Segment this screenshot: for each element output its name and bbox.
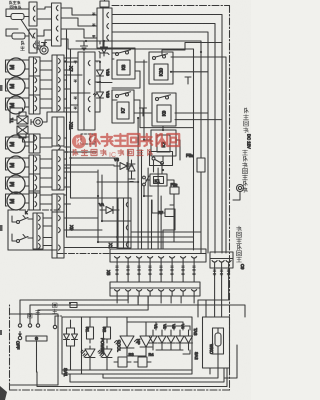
diode pair b [72, 328, 78, 346]
relay K8 block [112, 48, 135, 79]
wire to terminal [233, 196, 240, 200]
wire label [116, 266, 119, 268]
wire color mark b [74, 107, 77, 109]
label mid [36, 310, 41, 315]
junction verticals [97, 170, 99, 242]
X7 pin [59, 136, 61, 141]
X5 drop [160, 296, 162, 303]
wire M4 loop [6, 137, 30, 149]
wire M7 loop [6, 194, 30, 206]
compressor box [8, 210, 57, 250]
cap C near K9 [140, 108, 147, 116]
return circle [53, 325, 56, 328]
resistor R7 [165, 209, 175, 217]
nest wire 3 [37, 368, 227, 387]
connector X5 strip [110, 282, 200, 296]
X1-X5 link [171, 262, 173, 282]
connector X2b strip [78, 52, 95, 130]
connector X6 lower [29, 29, 37, 53]
label weak [28, 314, 33, 319]
wire M5 loop [6, 158, 30, 170]
return label [53, 303, 58, 308]
right text 1 [245, 108, 249, 113]
h wire gap3 [64, 61, 78, 63]
wires X9 out [43, 218, 52, 246]
switch S2 [17, 235, 29, 243]
connector X9b [52, 212, 64, 258]
terminal circle right [237, 185, 244, 197]
wire plug-X7 b [40, 107, 52, 109]
small comp on bus [70, 303, 77, 308]
wire M3 loop [6, 98, 30, 110]
wire M5 out [25, 166, 29, 168]
wire X7 out a [64, 79, 67, 81]
h wire m6 [64, 151, 97, 153]
switch diagonal wire [21, 20, 33, 39]
wire TL loop1 [6, 9, 29, 17]
X5 pin [137, 290, 142, 292]
wire label [182, 266, 185, 268]
X5 drop [170, 296, 172, 303]
nest wire 4 [224, 345, 237, 378]
label corner1 [10, 1, 12, 4]
fuse FB1 [197, 158, 205, 172]
wire M2 loop [6, 79, 30, 91]
paper noise [0, 0, 1, 1]
wire plug-X7 a [40, 60, 52, 62]
wire X6-X8 b [37, 18, 52, 20]
connector M2 plug [29, 76, 40, 95]
wire bus B [112, 24, 215, 254]
wire label [138, 266, 141, 268]
wire plug-X7 b [40, 69, 52, 71]
wire M2 out [25, 87, 29, 89]
X4 pin [219, 261, 224, 263]
wire X8-X2 c [61, 29, 97, 38]
connector X3 strip [118, 198, 131, 248]
wire M6 out [25, 185, 29, 187]
bus wire v138.1 [137, 118, 139, 249]
led HP [115, 330, 142, 356]
wire color mark [93, 13, 96, 15]
connector M6 plug [29, 174, 40, 193]
connector X8 [52, 3, 62, 46]
X1 pin [159, 257, 164, 259]
selector bar [26, 336, 47, 341]
connector X9u strip [52, 150, 64, 190]
h wire gap6 [64, 111, 78, 113]
X5 pin [159, 290, 164, 292]
wire label [127, 266, 130, 268]
transformer T1 [17, 112, 28, 138]
led POWER [81, 346, 95, 360]
connector X12 strip [52, 194, 64, 212]
wire FB2 drop [163, 194, 175, 249]
X1 pin [170, 257, 175, 259]
nest wire 1 [103, 368, 218, 378]
junction dots [97, 195, 99, 197]
wire bus D cont [200, 172, 202, 253]
right text 3 [237, 226, 242, 231]
relay contact box TL2 [12, 33, 25, 39]
wire misc mid [97, 62, 112, 83]
boundary dash-dot top [112, 5, 230, 7]
X5 pin [148, 290, 153, 292]
wire plug-X7 b [40, 186, 52, 188]
X1-X5 link [127, 262, 129, 282]
panel bottom wires [62, 350, 192, 370]
boundary dash-dot left indoor [9, 305, 11, 390]
diode SA2 [185, 330, 200, 360]
bus wire v141.5 [141, 150, 143, 249]
X5 drop [180, 296, 182, 303]
bottom bus 2 [30, 305, 245, 325]
wire X7 out b [64, 69, 71, 71]
wire X7 out b [64, 186, 71, 188]
wire plug-X7 b [40, 167, 52, 169]
cap T right [185, 76, 191, 78]
h wire m10 [131, 231, 201, 233]
boundary dash-dot right [229, 6, 231, 391]
wire X7 out b [64, 203, 71, 205]
wire X8-X2 b [61, 18, 97, 26]
connector M4 plug [29, 134, 40, 153]
watermark text line2 [73, 150, 152, 160]
switch block box [10, 314, 59, 385]
box bottom wires [210, 354, 218, 374]
wire X7 out b [64, 146, 71, 148]
h wire gap1 [64, 57, 78, 59]
wire label [149, 266, 152, 268]
h wire gap2 [71, 92, 91, 94]
connector X9a [33, 213, 43, 249]
fuse FB2 [170, 187, 179, 194]
relay K1 [150, 174, 167, 186]
selector stem [36, 341, 38, 372]
X2 pin [107, 13, 109, 18]
wire X7 out b [64, 88, 71, 90]
X5 pin [115, 290, 120, 292]
fan sensor [31, 118, 43, 127]
wire X6-X8 a [37, 7, 52, 9]
boundary dash-dot bottom [10, 389, 230, 391]
wire color mark b [74, 80, 77, 82]
wire plug-X7 a [40, 194, 52, 196]
motor M4 [7, 135, 25, 153]
X5 pin [126, 290, 131, 292]
wire color mark [93, 24, 96, 26]
return dashdot [55, 315, 62, 317]
panel wires a [67, 320, 75, 370]
X1-X5 link [160, 262, 162, 282]
compressor box dash-dot top [8, 209, 60, 211]
X1 pin [126, 257, 131, 259]
X5 pin [192, 290, 197, 292]
contact K2 [152, 157, 164, 170]
X4 pin [212, 261, 217, 263]
h wire m5 [98, 241, 194, 243]
bus wire v161.1 [160, 196, 162, 249]
connector M7 plug [29, 191, 40, 210]
wire K8-K10 [112, 62, 147, 88]
X2b pin [88, 80, 90, 85]
motor M6 [7, 175, 25, 193]
wire TL2-conn [25, 35, 29, 37]
wire M1 loop [6, 60, 30, 72]
wire plug-X7 a [40, 137, 52, 139]
pressure sensor [40, 43, 48, 55]
scan artifact left 3 [0, 330, 2, 335]
sa1 wire [36, 371, 39, 373]
X4 drop join [198, 300, 229, 317]
wire X8-X2 a [61, 8, 97, 15]
wire X7 out a [64, 98, 67, 100]
X1 pin [181, 257, 186, 259]
wire bus E [68, 49, 194, 250]
wire TL loop2 [6, 29, 18, 36]
wire color mark b [74, 61, 77, 63]
X5 pin [181, 290, 186, 292]
X1-X5 link [116, 262, 118, 282]
zener VZ [99, 41, 109, 56]
label tl2 [36, 41, 40, 45]
X4 label [220, 270, 223, 272]
relay K9 block [152, 93, 176, 126]
wire M7 out [25, 202, 29, 204]
wire M1 out [25, 68, 29, 70]
wire plug-X7 a [40, 158, 52, 160]
X4 drop [228, 268, 230, 300]
wire M4 out [25, 145, 29, 147]
motor M7 [7, 192, 25, 210]
h wire m3 [102, 220, 131, 222]
wire X7 out a [64, 137, 67, 139]
diode pair a [64, 328, 70, 346]
wire K7 row [112, 100, 194, 128]
wire X7 out b [64, 167, 71, 169]
bus wire v128.1 [127, 150, 129, 249]
X5 pin [170, 290, 175, 292]
diode V3 [167, 324, 176, 350]
wire K10 right [162, 43, 222, 72]
scan artifact left 2 [0, 225, 3, 231]
display panel box [62, 317, 192, 374]
bus wire v117.1 [116, 160, 118, 249]
relay K10 block [149, 52, 173, 84]
X5 drop [137, 296, 139, 303]
X7 pin [59, 157, 61, 162]
bus wire v151.5 [151, 200, 153, 249]
wire sw1 [12, 216, 33, 222]
resistor R3 [114, 352, 134, 367]
diode V19 [97, 89, 104, 101]
motor M3 [7, 96, 25, 114]
X2 pin [107, 24, 109, 29]
watermark text line1 [90, 134, 179, 146]
X1 pin [148, 257, 153, 259]
wire plug-X7 b [40, 203, 52, 205]
OFF circle [18, 336, 21, 339]
wire bus A [112, 15, 222, 254]
connector X6 upper [29, 2, 37, 26]
X7 pin [59, 78, 61, 83]
wire bus C [112, 32, 208, 253]
inner board [213, 328, 224, 354]
wire color mark [93, 36, 96, 38]
wire K2 feeds [144, 60, 180, 174]
wire X7 out a [64, 60, 67, 62]
panel h wires [127, 322, 190, 326]
wire K9 right [175, 113, 222, 120]
control box [203, 317, 230, 368]
wire bus F [171, 57, 226, 253]
X4 drop [221, 268, 223, 300]
pos circles [18, 324, 21, 327]
wire fan-X7 [43, 112, 53, 122]
h wire m1 [71, 197, 119, 199]
crystal [215, 333, 221, 346]
X5 drop [193, 296, 195, 303]
cap bar [128, 178, 135, 180]
X1-X5 link [182, 262, 184, 282]
bus wire v148.1 [147, 168, 149, 249]
connector M3 plug [29, 95, 40, 114]
led COOL [98, 346, 112, 360]
nest wire 2 [70, 368, 224, 382]
h wire gap5 [71, 104, 79, 106]
diode VA [99, 202, 119, 214]
connector X11 strip [52, 117, 64, 146]
ground [81, 41, 88, 50]
X2b pin [88, 97, 90, 102]
wire M6 loop [6, 177, 30, 189]
motor M5 [7, 156, 25, 174]
wire V18 [95, 41, 100, 112]
wire color mark b [74, 97, 77, 99]
right text 2 [243, 150, 248, 155]
wire plug-X7 b [40, 88, 52, 90]
X4 pin [226, 261, 231, 263]
panel divider [81, 317, 83, 374]
wire K1 feeds [144, 180, 174, 213]
wire X7 out a [64, 177, 67, 179]
X5 drop [116, 296, 118, 303]
resistor R1 [87, 323, 94, 343]
relay K2 block [151, 130, 176, 156]
connector X7 strip [52, 55, 64, 112]
X12 pins [59, 196, 61, 201]
panel top wires [90, 317, 190, 330]
connector X1 strip [110, 249, 206, 262]
diode V9 up [128, 160, 135, 176]
h wire m9 [64, 171, 97, 173]
X7 pin [59, 176, 61, 181]
X2b pin [88, 107, 90, 112]
diode V4 [176, 324, 185, 350]
wires X9b out [64, 218, 118, 248]
X5 drop [147, 296, 149, 303]
wire plug-X7 a [40, 79, 52, 81]
motor M1 [7, 58, 25, 76]
scan artifact corner [0, 386, 7, 400]
wire X7 out b [64, 107, 71, 109]
h wire m7 [71, 157, 119, 159]
wire label [193, 266, 196, 268]
wire plug-X7 a [40, 177, 52, 179]
h wire m8 [64, 164, 114, 166]
bottom bus 1 [20, 296, 128, 325]
resistor R2 [104, 323, 111, 343]
scan artifact left 1 [0, 85, 3, 91]
wire plug-X7 a [40, 98, 52, 100]
X1 pin [115, 257, 120, 259]
X1-X5 link [149, 262, 151, 282]
wire relay rows [112, 53, 117, 59]
diode V1 [149, 324, 158, 350]
wire M3 out [25, 106, 29, 108]
h wire gap4 [64, 74, 82, 76]
connector M5 plug [29, 155, 40, 174]
connector X2 strip [97, 8, 112, 48]
OFF arrow [19, 332, 21, 336]
wire X7 out a [64, 158, 67, 160]
bottom bus 3 [38, 296, 148, 325]
X2 top tag [100, 1, 109, 7]
switch S1 [17, 210, 29, 224]
contact K1 [143, 176, 149, 186]
X5 drop [127, 296, 129, 303]
motor M2 [7, 77, 25, 95]
bus v2 [70, 49, 72, 198]
X4 drop [214, 268, 216, 300]
label tl1 [21, 41, 24, 45]
X4 label [227, 270, 230, 272]
bus2 pin stub [137, 296, 139, 305]
wire bus D [76, 41, 201, 158]
diode V2 [158, 324, 167, 350]
indoor boundary dashdot mid [57, 253, 110, 255]
contact K2 outline [150, 152, 173, 166]
X7 pin [59, 59, 61, 64]
diode V18 [97, 67, 104, 79]
X4 label [213, 270, 216, 272]
connector X4 strip [210, 252, 233, 268]
led 4 [135, 330, 153, 356]
resistor R4 [134, 352, 154, 367]
watermark logo circle [72, 135, 86, 149]
wire X6-X8 c [37, 30, 52, 36]
X1-X5 link [193, 262, 195, 282]
wire label [171, 266, 174, 268]
connector M1 plug [29, 57, 40, 76]
X1 pin [192, 257, 197, 259]
wire X8-X2 d [61, 39, 90, 49]
wire X7 out a [64, 194, 67, 196]
X2b pin [88, 61, 90, 66]
relay contact box TL1 [11, 14, 24, 20]
h wire m2 [97, 181, 137, 183]
bus wire v158.1 [157, 168, 159, 249]
h wire m4 [67, 236, 194, 238]
connector stub dashed [81, 134, 95, 144]
X2 pin [107, 35, 109, 40]
wire label [160, 266, 163, 268]
wire T top [10, 108, 23, 120]
wire TL1-conn [24, 16, 29, 18]
wire T bot [23, 135, 35, 142]
wire sw2 [12, 234, 33, 241]
X1-X5 link [138, 262, 140, 282]
